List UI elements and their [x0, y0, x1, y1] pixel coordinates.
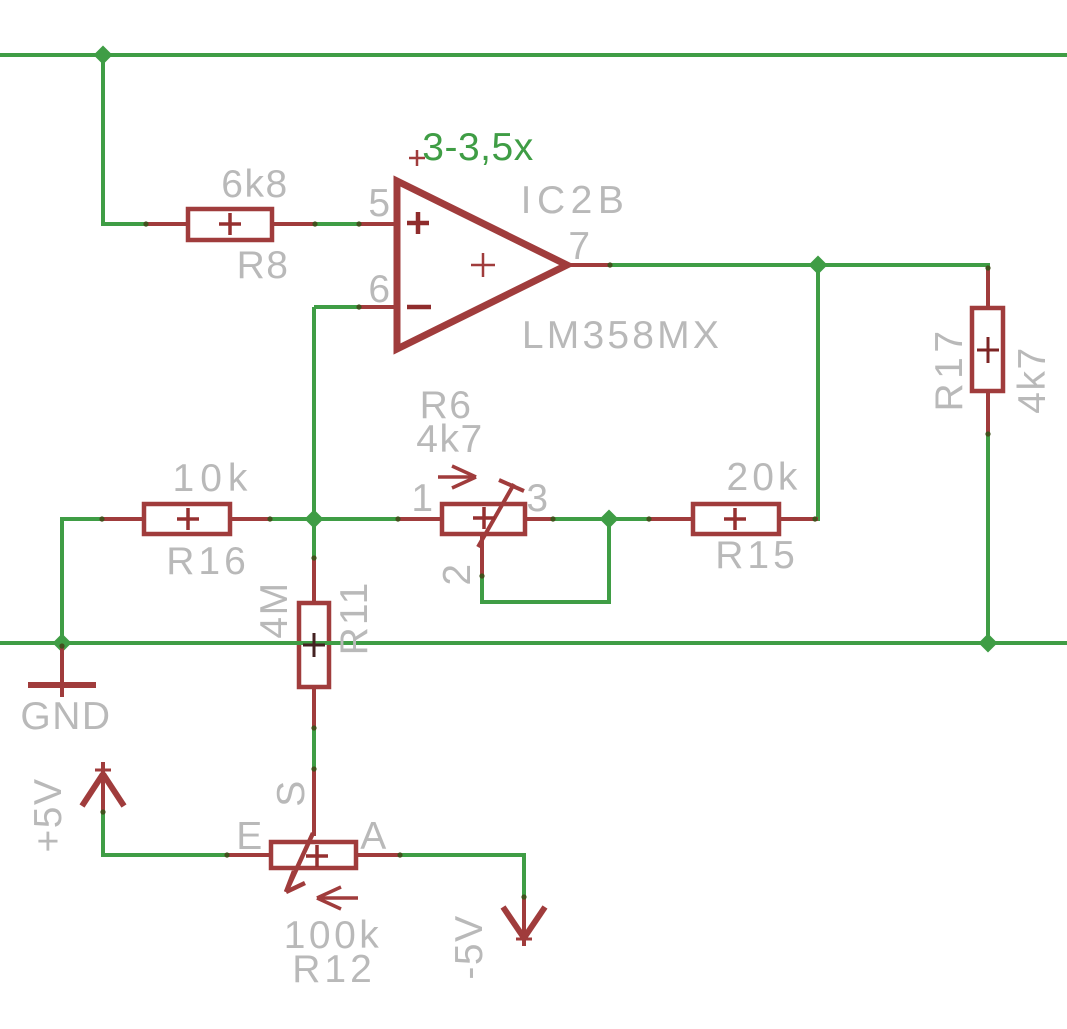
pin stub R8 left: [144, 222, 188, 226]
resistor origin cross R8: [219, 213, 241, 235]
op-amp IC2B: [397, 181, 567, 349]
svg-text:7: 7: [568, 225, 591, 268]
resistor origin cross R6: [473, 507, 495, 529]
pin stub R17 bottom: [986, 391, 990, 436]
svg-text:20k: 20k: [727, 456, 802, 499]
resistor R15: [693, 504, 779, 534]
svg-text:10k: 10k: [173, 457, 254, 500]
pin stub opamp pin7: [566, 263, 609, 267]
wire R16 to R6 through junction: [269, 517, 398, 521]
op-amp plus input mark: [407, 212, 429, 234]
resistor R17: [972, 308, 1003, 391]
wire opamp output to R17 corner: [608, 263, 990, 267]
resistor origin cross R16: [177, 508, 199, 530]
wire R8 row left: [101, 222, 146, 226]
potentiometer R6 wiper: [478, 480, 524, 547]
junction node top rail: [94, 46, 113, 65]
svg-text:R12: R12: [292, 948, 376, 991]
pin stub R11 top: [312, 556, 316, 603]
wire R8 to opamp pin5: [316, 222, 360, 226]
svg-text:E: E: [236, 815, 264, 858]
supply symbol +5V arrow: [82, 762, 124, 812]
op-amp minus input mark: [407, 305, 431, 310]
wire mid row left vertical: [60, 519, 64, 645]
pin stub R8 right: [272, 222, 316, 226]
junction node opamp output: [809, 256, 828, 275]
pin stub R15 right: [779, 517, 818, 521]
pin stub R12 S vertical: [312, 768, 316, 836]
wire bottom rail: [0, 641, 1067, 645]
pin stub R6 pin3: [525, 517, 554, 521]
svg-text:6: 6: [368, 268, 391, 311]
svg-text:A: A: [360, 815, 388, 858]
junction node GND: [53, 634, 72, 653]
junction node mid row at R11: [305, 510, 324, 529]
pin stub R16 right: [230, 517, 271, 521]
wire bottom rail over R11: [295, 641, 335, 645]
pin end dots: [59, 221, 990, 899]
pin stub R11 bottom: [312, 687, 316, 730]
supply symbol -5V arrow: [503, 897, 545, 946]
potentiometer R12 adjust arrow: [317, 887, 358, 909]
svg-text:+5V: +5V: [27, 778, 70, 853]
wire R6 pin3 to junction to R15: [552, 517, 649, 521]
wire vertical inverting input to mid row junction: [312, 307, 316, 521]
svg-text:1: 1: [411, 477, 434, 520]
resistor origin cross R11: [303, 633, 325, 657]
resistor origin cross R17: [977, 337, 999, 363]
potentiometer R12 body: [271, 842, 356, 868]
wire +5V to R12 E: [101, 812, 105, 857]
resistor origin cross R12: [306, 845, 328, 867]
pin stub R12 E: [225, 853, 271, 857]
svg-text:3: 3: [526, 477, 549, 520]
pin stub opamp pin5: [358, 222, 398, 226]
svg-text:4M: 4M: [253, 581, 296, 638]
svg-text:R16: R16: [166, 540, 250, 583]
svg-text:4k7: 4k7: [416, 418, 483, 461]
junction node R6 output: [600, 510, 619, 529]
svg-text:GND: GND: [20, 695, 111, 738]
svg-text:LM358MX: LM358MX: [522, 314, 722, 357]
potentiometer R6 body: [442, 504, 525, 534]
pin stub opamp pin6: [358, 305, 398, 309]
gate origin cross near 3-3,5x: [409, 150, 425, 166]
resistor R8: [188, 209, 272, 240]
wire mid row left horizontal: [60, 517, 102, 521]
svg-text:S: S: [270, 779, 313, 807]
svg-text:5: 5: [368, 182, 391, 225]
potentiometer R6 adjust arrow: [438, 466, 476, 488]
pin stub R6 pin1: [397, 517, 442, 521]
ground symbol GND: [60, 645, 64, 697]
wire vertical output junction down to R15: [816, 265, 820, 521]
wire vertical from top rail to R8 row: [101, 55, 105, 226]
wire R17 bottom to bottom rail: [986, 434, 990, 645]
svg-text:4k7: 4k7: [1011, 346, 1054, 413]
wire R6 pin2 loop: [480, 575, 484, 604]
svg-text:3-3,5x: 3-3,5x: [422, 126, 533, 169]
pin stub R6 pin2: [480, 534, 484, 577]
pin stub R17 top: [986, 267, 990, 308]
pin stub R12 A: [356, 853, 401, 857]
svg-text:-5V: -5V: [448, 914, 491, 979]
svg-text:R11: R11: [333, 581, 376, 656]
junction node R17 bottom: [979, 634, 998, 653]
wire junction to R11 top: [312, 519, 316, 558]
resistor R11: [299, 603, 329, 687]
resistor origin cross R15: [724, 508, 746, 530]
op-amp origin cross: [471, 253, 495, 277]
svg-text:R17: R17: [928, 326, 971, 411]
wire top rail: [0, 53, 1067, 57]
wire R11 bottom green segment: [312, 728, 316, 770]
wire opamp pin6 horizontal: [314, 305, 360, 309]
wire R12 A to -5V corner: [399, 853, 526, 857]
svg-text:R8: R8: [237, 244, 290, 287]
svg-text:2: 2: [436, 562, 479, 585]
wire R17 top stub green: [986, 263, 990, 269]
pin stub R15 left: [647, 517, 693, 521]
potentiometer R12 wiper arrow: [286, 833, 313, 892]
resistor R16: [144, 504, 230, 534]
svg-text:IC2B: IC2B: [521, 179, 630, 222]
svg-text:R15: R15: [715, 534, 799, 577]
pin stub R16 left: [100, 517, 144, 521]
svg-text:6k8: 6k8: [221, 163, 288, 206]
